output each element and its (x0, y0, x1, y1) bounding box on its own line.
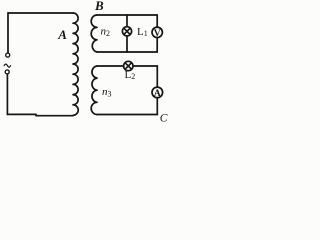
wire secondary C top right (133, 65, 157, 67)
lamp L2 (124, 61, 133, 70)
wire primary left upper (7, 13, 9, 53)
svg-text:A: A (154, 89, 161, 99)
terminal lower (5, 70, 9, 74)
AC source tilde (4, 64, 10, 67)
wire secondary C top left (97, 65, 124, 67)
wire primary top (8, 12, 73, 14)
wire voltmeter branch upper (156, 15, 158, 27)
svg-text:B: B (94, 0, 104, 13)
lamp L1 (122, 27, 131, 36)
secondary winding n3 (91, 66, 97, 114)
secondary winding n2 (91, 15, 97, 52)
wire voltmeter branch lower (156, 38, 158, 52)
svg-text:V: V (154, 29, 161, 39)
wire ammeter branch upper (156, 66, 158, 87)
primary winding n1 (73, 13, 78, 115)
wire primary bottom (7, 114, 73, 115)
wire secondary B bottom (97, 51, 157, 53)
voltmeter V (152, 27, 162, 37)
wire secondary C bottom (97, 114, 157, 116)
wire secondary B top (97, 14, 157, 16)
ammeter A (152, 87, 163, 98)
wire primary left lower (6, 74, 8, 114)
svg-text:C: C (160, 113, 168, 125)
wire lamp L1 branch lower (126, 36, 128, 52)
svg-text:A: A (57, 27, 67, 42)
terminal upper (6, 53, 10, 57)
wire ammeter branch lower (156, 98, 158, 115)
wire lamp L1 branch upper (126, 15, 128, 27)
